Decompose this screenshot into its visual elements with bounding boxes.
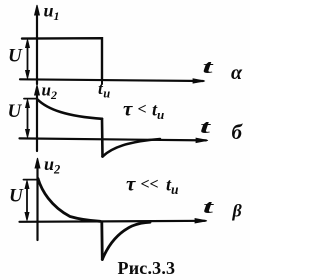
spike recovery curve plot v	[102, 222, 150, 259]
svg-text:U: U	[9, 186, 24, 207]
axis t plot a	[20, 79, 205, 84]
axis u2 vertical plot b	[35, 85, 40, 151]
axis u2 vertical plot v	[35, 158, 40, 240]
svg-text:U: U	[8, 101, 23, 122]
recovery curve plot b	[103, 139, 161, 157]
tick U level plot v	[24, 179, 38, 181]
svg-text:u2: u2	[42, 81, 57, 103]
svg-text:tи: tи	[98, 79, 110, 101]
negative spike at tu plot v	[100, 222, 103, 260]
rectangular pulse u1	[22, 38, 102, 79]
svg-text:t: t	[203, 197, 214, 218]
dimension arrow U plot a	[26, 40, 30, 79]
svg-text:t: t	[200, 117, 211, 138]
svg-text:U: U	[8, 46, 23, 67]
svg-text:u1: u1	[44, 1, 60, 24]
tick tu plot a	[101, 80, 103, 84]
svg-text:б: б	[232, 120, 244, 144]
svg-text:Рис.3.3: Рис.3.3	[118, 258, 176, 278]
svg-text:u2: u2	[44, 154, 60, 177]
svg-text:α: α	[231, 62, 243, 84]
svg-text:β: β	[232, 201, 243, 221]
svg-text:t: t	[203, 57, 214, 78]
axis u1 vertical	[35, 5, 40, 84]
dimension arrow U plot b	[26, 100, 30, 138]
svg-text:τ<<tи: τ<<tи	[126, 172, 179, 198]
svg-text:τ<tи: τ<tи	[123, 97, 164, 123]
tick U level plot b	[24, 98, 37, 100]
fast decay curve u2 plot v	[38, 179, 100, 222]
axis t plot b	[20, 138, 209, 143]
step down at tu plot b	[101, 119, 104, 157]
dimension arrow U plot v	[25, 181, 29, 221]
axis t plot v	[20, 219, 208, 224]
decay curve u2 plot b	[37, 99, 102, 119]
